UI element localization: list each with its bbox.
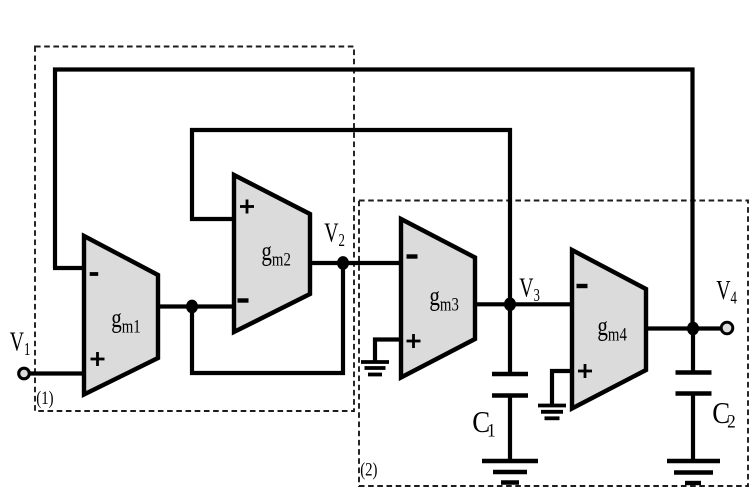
dashed block (1) — [35, 47, 354, 412]
node V2 — [337, 256, 349, 270]
svg-text:V2: V2 — [324, 219, 345, 251]
wire feedback V4 to gm1 minus — [55, 70, 693, 330]
op-amp gm4 — [572, 250, 646, 409]
wire gm1 out to gm2 minus — [156, 304, 236, 308]
node label V1 — [10, 328, 31, 360]
op-amp gm1 — [84, 236, 158, 395]
node V3 — [504, 297, 516, 311]
wire gm3 plus to ground — [375, 340, 403, 362]
svg-text:C1: C1 — [472, 405, 495, 440]
wire gm2 out V2 to gm3 minus — [308, 261, 403, 265]
wire feedback V3 to gm2 plus — [192, 130, 510, 302]
node label V4 — [716, 276, 737, 308]
wire C2 to ground — [691, 394, 695, 460]
wire gm3 out V3 to gm4 minus — [473, 302, 574, 306]
block label (1) — [36, 387, 53, 408]
node gm1 output — [186, 300, 198, 314]
ground under C1 — [482, 459, 538, 463]
op-amp gm2 — [234, 175, 310, 332]
dashed block (2) — [359, 201, 748, 487]
wire gm1 minus stub — [53, 266, 86, 270]
svg-text:C2: C2 — [712, 396, 735, 431]
wire V1 input — [29, 371, 86, 375]
capacitor C2 — [676, 370, 712, 375]
wire C1 to ground — [508, 396, 512, 461]
ground at gm3 plus — [361, 360, 389, 364]
wire V3 down to C1 — [508, 302, 512, 373]
node label V3 — [519, 274, 540, 306]
capacitor C1 — [492, 372, 528, 377]
svg-text:(1): (1) — [36, 387, 53, 408]
ground at gm4 plus — [538, 404, 566, 408]
svg-text:V3: V3 — [519, 274, 540, 306]
wire V4 down to C2 — [691, 329, 695, 371]
wire gm4 out V4 to terminal — [644, 326, 722, 330]
op-amp gm3 — [401, 219, 475, 378]
node V4 — [687, 322, 699, 336]
terminal V1 — [19, 368, 30, 379]
svg-text:V1: V1 — [10, 328, 31, 360]
wire gm1 node down and right up to V2 — [192, 263, 343, 373]
node label V2 — [324, 219, 345, 251]
terminal V4 — [721, 322, 733, 334]
ground under C2 — [667, 459, 720, 463]
wire gm4 plus to ground — [552, 371, 574, 404]
block label (2) — [360, 459, 377, 480]
svg-text:V4: V4 — [716, 276, 737, 308]
svg-text:(2): (2) — [360, 459, 377, 480]
